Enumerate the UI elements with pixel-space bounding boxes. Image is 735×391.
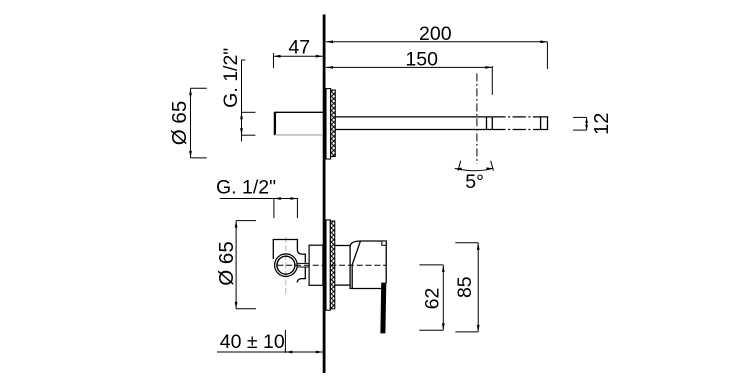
arc end arrows — [455, 168, 462, 171]
handle cap circle outer — [275, 254, 298, 277]
G 1/2 top bracket — [241, 60, 243, 142]
svg-text:150: 150 — [405, 48, 438, 70]
dim 12 — [573, 116, 587, 118]
svg-text:G. 1/2": G. 1/2" — [216, 176, 276, 198]
arc end ticks — [458, 161, 461, 171]
dim 40 +/- 10 — [217, 351, 323, 353]
dim 85 — [477, 243, 479, 332]
dim 47 extension — [273, 53, 275, 68]
dim 200 extension — [546, 42, 548, 70]
svg-text:47: 47 — [288, 37, 310, 59]
dim diam 65 top — [190, 88, 192, 158]
set screw notch — [382, 241, 386, 245]
handle cap circle inner — [277, 256, 295, 274]
supply pipe bottom edge (gray) — [275, 134, 323, 136]
spout end cap — [533, 117, 548, 130]
dim 150 extension — [491, 66, 493, 95]
connector lines — [297, 262, 309, 264]
lever bar (black) — [380, 283, 386, 334]
valve body outline — [273, 240, 305, 283]
cartridge neck — [335, 245, 350, 247]
dim 47 line — [274, 55, 323, 57]
svg-text:12: 12 — [591, 113, 613, 135]
supply pipe left edge — [274, 112, 276, 135]
supply pipe top edge — [275, 111, 323, 113]
bottom flange knurl — [330, 221, 335, 309]
top flange knurl — [331, 90, 336, 157]
top flange plate — [326, 89, 331, 159]
cartridge handle body — [350, 241, 386, 289]
wall line — [323, 15, 326, 374]
valve body centerline vertical (gray) — [285, 237, 287, 296]
svg-text:Ø 65: Ø 65 — [215, 241, 238, 285]
spout dash-dot extension — [492, 116, 533, 118]
lever edge — [352, 241, 360, 288]
svg-text:62: 62 — [421, 288, 443, 310]
center dash line — [278, 264, 387, 266]
svg-text:Ø 65: Ø 65 — [168, 101, 191, 145]
spout tube — [335, 116, 492, 118]
spout tick 2 — [491, 117, 493, 130]
dim 62 — [442, 265, 444, 330]
svg-text:G. 1/2": G. 1/2" — [220, 48, 242, 108]
dim diam 65 bottom — [235, 221, 237, 309]
wall block — [309, 245, 323, 285]
bottom flange plate — [326, 220, 330, 310]
5 degree swing arc — [455, 168, 493, 171]
spout tick 1 — [486, 117, 488, 130]
svg-text:85: 85 — [454, 276, 476, 298]
dim 200 line — [326, 41, 547, 43]
dim G 1/2 bottom — [220, 198, 298, 200]
svg-text:5°: 5° — [465, 171, 484, 193]
dim 150 line — [326, 66, 492, 68]
spout center line — [476, 73, 478, 163]
svg-text:40 ± 10: 40 ± 10 — [220, 331, 285, 353]
svg-text:200: 200 — [419, 23, 452, 45]
